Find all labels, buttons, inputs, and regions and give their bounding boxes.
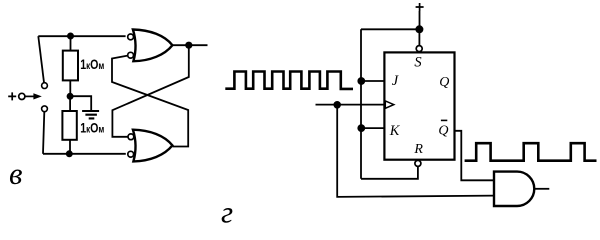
node switch lower contact	[42, 106, 48, 112]
wire K input	[361, 127, 384, 129]
gate DD2 (NAND, OR-shape with input bubbles) bottom	[133, 130, 173, 162]
input clock waveform	[225, 72, 353, 89]
label R1 value 1кОм	[80, 56, 104, 72]
wire cross-coupling B: bottom gate output to top gate lower input	[112, 56, 188, 147]
node junction bottom rail	[66, 150, 73, 157]
wire left drop from top rail to switch upper contact	[38, 36, 44, 82]
node DD1 output junction	[185, 42, 192, 49]
wire mid node to R2	[69, 96, 71, 111]
node bubble DD1 input upper	[128, 34, 134, 40]
gate DD1 (NAND, OR-shape with input bubbles) top	[133, 30, 173, 62]
wire top rail to R1	[70, 36, 72, 51]
node mid junction	[67, 93, 74, 100]
wire junction to bus	[361, 28, 419, 30]
wire DD3 output	[534, 188, 549, 190]
wire mid node to ground	[70, 96, 91, 110]
wire clock to AND lower input	[337, 105, 494, 197]
output waveform	[465, 143, 597, 161]
ground	[82, 111, 99, 118]
wire bus bottom to R pin	[361, 166, 418, 178]
label + input plus	[8, 92, 16, 100]
node junction top rail	[67, 33, 74, 40]
node clock junction	[333, 101, 341, 109]
node J junction	[357, 77, 365, 85]
svg-text:1кОм: 1кОм	[80, 56, 104, 72]
pin C dynamic input arrow	[385, 101, 394, 108]
wire top rail	[38, 35, 125, 37]
svg-text:г: г	[221, 195, 233, 230]
node bubble DD1 input lower	[128, 52, 134, 58]
svg-text:J: J	[392, 73, 399, 89]
wire Q-bar to AND upper input	[455, 131, 495, 181]
node bubble S pin	[416, 46, 422, 52]
gate DD3 AND	[494, 172, 534, 206]
node junction below plus	[415, 25, 423, 33]
flip-flop U1 box	[384, 52, 454, 159]
wire J input	[361, 80, 384, 82]
wire bottom rail	[43, 153, 126, 155]
resistor R2	[62, 111, 76, 140]
wire vertical bus	[360, 29, 362, 179]
node bubble DD2 input lower	[128, 151, 134, 157]
svg-text:S: S	[414, 55, 422, 71]
resistor R1	[63, 51, 78, 81]
wire R2 to bottom rail	[69, 140, 71, 154]
node bubble DD2 input upper	[128, 134, 134, 140]
wire S pin	[418, 29, 420, 45]
label + supply plus	[416, 3, 424, 11]
node input terminal	[19, 93, 25, 99]
label R2 value 1кОм	[80, 120, 104, 136]
wire R1 to mid node	[69, 80, 71, 96]
node switch upper contact	[42, 83, 48, 89]
svg-text:в: в	[9, 156, 22, 191]
wire lower contact to bottom rail	[43, 112, 44, 154]
switch wiper arrow	[25, 95, 35, 97]
svg-text:Q: Q	[439, 75, 449, 90]
node bubble R pin	[415, 160, 421, 166]
wire DD1 output	[172, 44, 207, 46]
wire plus to junction	[419, 11, 421, 33]
svg-text:1кОм: 1кОм	[80, 120, 104, 136]
svg-text:K: K	[389, 123, 401, 139]
wire clock input C	[316, 104, 384, 106]
wire cross-coupling A: top gate output to bottom gate upper input	[112, 45, 188, 137]
svg-text:Q: Q	[438, 123, 448, 138]
node K junction	[357, 124, 365, 132]
svg-text:R: R	[413, 142, 423, 157]
